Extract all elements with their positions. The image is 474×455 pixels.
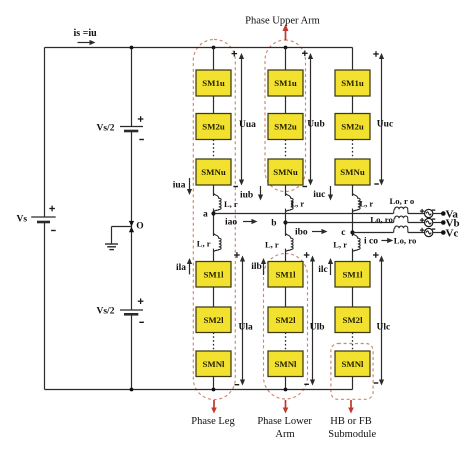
svg-text:Ulb: Ulb xyxy=(310,323,325,333)
svg-text:SM2u: SM2u xyxy=(341,122,364,132)
svg-text:iub: iub xyxy=(240,191,253,201)
wire: left DC link vertical (bottom half) xyxy=(44,223,46,390)
svg-text:SMNu: SMNu xyxy=(273,167,298,177)
submodule SMNl phase C xyxy=(335,351,370,377)
wire: phase C SMNu to upper inductor xyxy=(352,185,354,196)
wire: AC source Vb to terminal xyxy=(433,222,444,224)
wire: output line phase a xyxy=(214,213,394,215)
svg-text:Submodule: Submodule xyxy=(328,429,376,440)
arrow Ulc voltage xyxy=(381,260,383,381)
svg-text:L, r: L, r xyxy=(197,239,211,249)
arrow Ulb voltage xyxy=(312,260,314,381)
svg-text:SM1l: SM1l xyxy=(342,269,363,279)
wire: bottom DC bus xyxy=(45,389,353,391)
Ula + sign xyxy=(234,254,240,256)
wire: phase A SM2l-SMNl dotted xyxy=(213,333,215,352)
wire: ground stub xyxy=(112,226,132,228)
svg-text:SM1l: SM1l xyxy=(203,269,224,279)
svg-text:a: a xyxy=(203,210,208,220)
arrow Uuc voltage xyxy=(381,58,383,182)
submodule SMNu phase B xyxy=(268,159,303,185)
wire: phase C SM1l-SM2l xyxy=(352,287,354,307)
svg-text:Uub: Uub xyxy=(307,120,324,130)
svg-text:SM2u: SM2u xyxy=(274,122,297,132)
Uub - sign xyxy=(303,186,308,188)
svg-text:SM2l: SM2l xyxy=(203,315,224,325)
arrow Uua voltage xyxy=(241,58,243,182)
svg-text:Vs: Vs xyxy=(17,214,28,224)
terminal dot Vc xyxy=(441,230,446,235)
wire: phase C upper inductor to node xyxy=(352,209,354,233)
svg-text:Lo, ro: Lo, ro xyxy=(370,214,393,224)
arrow ibo (right) xyxy=(312,231,324,233)
arrow iua (down) xyxy=(189,178,191,191)
wire: midpoint branch lower xyxy=(131,315,133,390)
wire: phase C lower inductor to SM1l xyxy=(352,249,354,262)
wire: phase C top bus to SM1u xyxy=(352,48,354,71)
node c xyxy=(350,230,354,234)
Ulb + sign xyxy=(304,254,310,256)
wire: left DC link vertical (top half) xyxy=(44,48,46,217)
inductor L,r lower arm phase B xyxy=(286,233,294,252)
wire: phase A SMNu to upper inductor xyxy=(213,185,215,196)
submodule SM2u phase A xyxy=(196,114,231,140)
inductor L,r lower arm phase C xyxy=(353,233,361,252)
submodule SMNl phase A xyxy=(196,351,231,377)
wire: line a to AC source xyxy=(408,213,425,215)
svg-text:SMNl: SMNl xyxy=(275,359,298,369)
svg-text:SM1l: SM1l xyxy=(275,269,296,279)
Uub + sign xyxy=(302,52,308,54)
node O midpoint marker xyxy=(129,221,134,227)
submodule SM1u phase C xyxy=(335,70,370,96)
terminal dot Va xyxy=(441,211,446,216)
wire: midpoint branch upper xyxy=(131,48,133,127)
submodule SM1l phase B xyxy=(268,262,303,288)
AC source Vb xyxy=(425,218,433,226)
svg-text:Uua: Uua xyxy=(239,120,256,130)
submodule SM1u phase A xyxy=(196,70,231,96)
svg-text:L, r: L, r xyxy=(291,199,305,209)
svg-text:ila: ila xyxy=(176,263,186,273)
svg-text:SM1u: SM1u xyxy=(202,78,225,88)
svg-text:SMNu: SMNu xyxy=(340,167,365,177)
arrow ilb (up) xyxy=(263,262,265,275)
svg-text:Ula: Ula xyxy=(239,323,254,333)
submodule SM1l phase A xyxy=(196,262,231,288)
svg-text:SM2l: SM2l xyxy=(342,315,363,325)
node b xyxy=(283,220,287,224)
upper capacitor - sign xyxy=(139,139,144,141)
AC source Va - sign xyxy=(432,209,435,211)
svg-text:Phase Lower: Phase Lower xyxy=(257,416,312,427)
junction: top bus / phase A xyxy=(212,46,216,50)
svg-text:O: O xyxy=(136,222,143,232)
svg-text:SM2l: SM2l xyxy=(275,315,296,325)
wire: phase B upper inductor to node xyxy=(285,209,287,223)
Ulb - sign xyxy=(304,383,309,385)
svg-text:HB or FB: HB or FB xyxy=(330,416,371,427)
svg-text:ibo: ibo xyxy=(295,227,308,237)
Ula - sign xyxy=(235,384,240,386)
wire: AC source Va to terminal xyxy=(433,213,444,215)
battery + sign xyxy=(49,208,55,210)
wire: phase C SMNl to bottom bus xyxy=(352,377,354,390)
wire: output line phase c xyxy=(353,232,394,234)
svg-text:SMNl: SMNl xyxy=(203,359,226,369)
submodule SM2l phase C xyxy=(335,307,370,333)
wire: phase A SM2u-SMNu dotted xyxy=(213,140,215,160)
arrow iuc (down) xyxy=(330,186,332,197)
svg-text:ilb: ilb xyxy=(251,262,262,272)
junction: top bus / midpoint branch xyxy=(130,46,134,50)
phase B upper-arm dashed outline xyxy=(265,40,306,192)
svg-text:Uuc: Uuc xyxy=(377,120,393,130)
terminal dot Vb xyxy=(441,220,446,225)
submodule SMNu phase C xyxy=(335,159,370,185)
AC source Vb + sign xyxy=(420,219,424,221)
wire: phase B node to lower inductor xyxy=(285,223,287,237)
svg-text:Lo, ro: Lo, ro xyxy=(394,236,417,246)
inductor Lo,ro line c xyxy=(394,226,408,232)
submodule SMNl phase B xyxy=(268,351,303,377)
wire: phase C SM1u-SM2u xyxy=(352,96,354,114)
wire: phase B SM1u-SM2u xyxy=(285,96,287,114)
arrow iao (right) xyxy=(243,221,254,223)
inductor Lo,ro line b xyxy=(394,216,408,222)
svg-text:iao: iao xyxy=(225,217,237,227)
junction: top bus / phase B xyxy=(284,46,288,50)
svg-text:Ulc: Ulc xyxy=(377,323,391,333)
wire: phase A SMNl to bottom bus xyxy=(213,377,215,390)
svg-text:Lo, r o: Lo, r o xyxy=(390,196,415,206)
AC source Vc - sign xyxy=(432,228,435,230)
arrow i co (right) xyxy=(381,240,389,242)
wire: phase C SM2l-SMNl dotted xyxy=(352,333,354,352)
svg-text:SM1u: SM1u xyxy=(341,78,364,88)
capacitor Vs/2 upper xyxy=(120,127,143,132)
Uuc - sign xyxy=(374,183,379,185)
svg-text:Phase Upper Arm: Phase Upper Arm xyxy=(245,16,320,27)
wire: phase A node to lower inductor xyxy=(213,214,215,237)
submodule SM2l phase A xyxy=(196,307,231,333)
battery - sign xyxy=(51,230,56,232)
wire: phase B SM2u-SMNu dotted xyxy=(285,140,287,160)
wire: phase A SM1u-SM2u xyxy=(213,96,215,114)
wire: phase B SM2l-SMNl dotted xyxy=(285,333,287,352)
submodule SM1u phase B xyxy=(268,70,303,96)
wire: phase A top bus to SM1u xyxy=(213,48,215,71)
red arrow to Phase Upper Arm xyxy=(285,30,287,40)
submodule SM1l phase C xyxy=(335,262,370,288)
AC source Va + sign xyxy=(420,210,424,212)
svg-text:SMNl: SMNl xyxy=(342,359,365,369)
wire: phase B lower inductor to SM1l xyxy=(285,249,287,262)
capacitor Vs/2 lower xyxy=(120,310,143,314)
phase leg A dashed outline xyxy=(193,40,235,400)
svg-text:L, r: L, r xyxy=(265,240,279,250)
red arrow to Phase Lower Arm caption xyxy=(285,400,287,409)
wire: phase A lower inductor to SM1l xyxy=(213,249,215,262)
Uua + sign xyxy=(232,53,238,55)
svg-text:ilc: ilc xyxy=(318,265,328,275)
wire: phase C node to lower inductor xyxy=(352,233,354,237)
AC source Vc + sign xyxy=(420,229,424,231)
svg-text:Vc: Vc xyxy=(446,227,459,239)
inductor L,r upper arm phase A xyxy=(214,193,222,212)
svg-text:iuc: iuc xyxy=(313,190,325,200)
AC source Vc xyxy=(425,228,433,236)
wire: AC source Vc to terminal xyxy=(433,232,444,234)
submodule SM2u phase C xyxy=(335,114,370,140)
AC source Vb - sign xyxy=(432,218,435,220)
wire: phase A SM1l-SM2l xyxy=(213,287,215,307)
arrow Uub voltage xyxy=(310,58,312,182)
svg-text:Vs/2: Vs/2 xyxy=(97,307,115,317)
red arrow to HB or FB Submodule caption xyxy=(350,400,352,409)
svg-text:c: c xyxy=(341,228,345,238)
svg-text:SMNu: SMNu xyxy=(201,167,226,177)
wire: output line phase b xyxy=(286,222,394,224)
wire: phase B SMNl to bottom bus xyxy=(285,377,287,390)
Ulc + sign xyxy=(373,254,379,256)
svg-text:b: b xyxy=(271,218,276,228)
svg-text:Vs/2: Vs/2 xyxy=(97,123,115,133)
wire: phase A upper inductor to node xyxy=(213,209,215,214)
svg-text:L, r: L, r xyxy=(333,240,347,250)
wire: midpoint branch middle xyxy=(131,132,133,310)
inductor L,r lower arm phase A xyxy=(214,233,222,252)
inductor L,r upper arm phase B xyxy=(286,193,294,212)
junction: bottom bus / phase A xyxy=(212,388,216,392)
svg-text:is =iu: is =iu xyxy=(74,28,98,39)
lower capacitor + sign xyxy=(138,300,144,302)
HB/FB submodule dashed outline xyxy=(331,344,373,400)
arrow ila (up) xyxy=(189,262,191,274)
red arrow to Phase Leg caption xyxy=(213,400,215,409)
arrow Ula voltage xyxy=(242,260,244,381)
submodule SM2l phase B xyxy=(268,307,303,333)
wire: line c to AC source xyxy=(408,232,425,234)
submodule SM2u phase B xyxy=(268,114,303,140)
wire: line b to AC source xyxy=(408,222,425,224)
wire: phase B SMNu to upper inductor xyxy=(285,185,287,196)
junction: bottom bus / phase B xyxy=(284,388,288,392)
arrow is=iu xyxy=(78,42,92,44)
upper capacitor + sign xyxy=(138,118,144,120)
svg-text:iua: iua xyxy=(173,180,186,190)
wire: phase B top bus to SM1u xyxy=(285,48,287,71)
Uua - sign xyxy=(233,186,238,188)
ground symbol xyxy=(105,244,118,250)
Uuc + sign xyxy=(373,53,379,55)
wire: phase B SM1l-SM2l xyxy=(285,287,287,307)
svg-text:SM2u: SM2u xyxy=(202,122,225,132)
svg-text:i co: i co xyxy=(364,237,378,247)
svg-text:Phase Leg: Phase Leg xyxy=(191,416,235,427)
phase B lower-arm dashed outline xyxy=(264,254,308,400)
AC source Va xyxy=(425,209,433,217)
arrow ilc (up) xyxy=(330,262,332,275)
inductor Lo,ro line a xyxy=(394,207,408,213)
junction: bottom bus / midpoint branch xyxy=(130,388,134,392)
svg-text:SM1u: SM1u xyxy=(274,78,297,88)
svg-text:L, r: L, r xyxy=(224,199,238,209)
lower capacitor - sign xyxy=(139,321,144,323)
Ulc - sign xyxy=(374,382,379,384)
wire: phase C SM2u-SMNu dotted xyxy=(352,140,354,160)
svg-text:L, r: L, r xyxy=(360,199,374,209)
wire: top DC bus xyxy=(45,47,353,49)
inductor L,r upper arm phase C xyxy=(353,193,361,212)
svg-text:Arm: Arm xyxy=(275,429,294,440)
node a xyxy=(211,211,215,215)
battery Vs xyxy=(31,217,56,222)
submodule SMNu phase A xyxy=(196,159,231,185)
arrow iub (down) xyxy=(260,186,262,197)
